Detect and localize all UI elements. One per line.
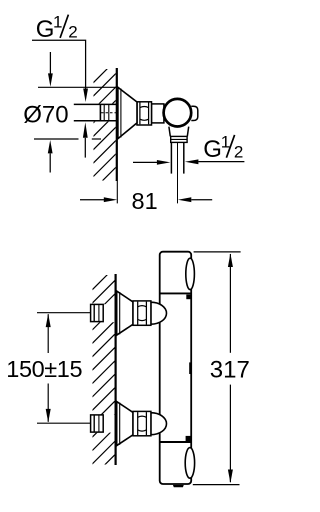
svg-text:81: 81 bbox=[132, 188, 158, 214]
svg-text:1: 1 bbox=[53, 12, 62, 31]
svg-text:2: 2 bbox=[234, 142, 243, 161]
svg-text:G: G bbox=[36, 16, 55, 43]
svg-text:317: 317 bbox=[210, 357, 250, 384]
svg-text:G: G bbox=[203, 136, 222, 163]
svg-text:Ø70: Ø70 bbox=[23, 101, 68, 128]
svg-text:2: 2 bbox=[68, 23, 77, 42]
svg-text:150±15: 150±15 bbox=[6, 356, 82, 382]
